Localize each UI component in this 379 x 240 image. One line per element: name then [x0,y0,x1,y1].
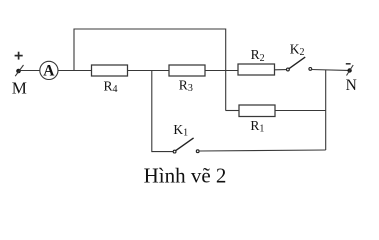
wire top bypass loop [74,29,226,111]
ammeter A [40,61,58,79]
label + (M polarity) [15,52,23,60]
svg-text:K2: K2 [290,41,305,58]
terminal M [15,65,23,76]
resistor R4 [92,65,128,76]
wire right bus vertical [325,70,327,150]
svg-text:N: N [346,77,357,94]
switch K1 [173,138,199,153]
terminal N [346,64,353,76]
wire R3 to R2 [205,70,238,72]
svg-text:A: A [43,63,55,80]
svg-text:R1: R1 [250,118,264,135]
wire bottom to switch K1 [152,151,173,153]
svg-text:Hình vẽ 2: Hình vẽ 2 [144,163,227,187]
wire K1 to right bus [199,150,326,151]
resistor R3 [169,65,205,76]
resistor R2 [238,64,275,75]
svg-text:K1: K1 [173,122,188,139]
switch K2 [287,57,312,71]
wire M to ammeter [21,70,40,72]
wire ammeter to R4 [58,70,92,72]
svg-text:R3: R3 [179,77,193,94]
svg-text:M: M [12,78,27,97]
wire junction to R1 [226,110,240,112]
svg-text:R2: R2 [251,47,265,64]
wire R2 to switch K2 [275,69,287,71]
wire junction drop to K1 [151,71,153,153]
wire R4 to R3 [128,70,169,72]
svg-text:R4: R4 [104,78,118,95]
resistor R1 [239,105,275,117]
wire R1 to right bus [275,110,326,112]
wire K2 to terminal N [311,69,348,72]
